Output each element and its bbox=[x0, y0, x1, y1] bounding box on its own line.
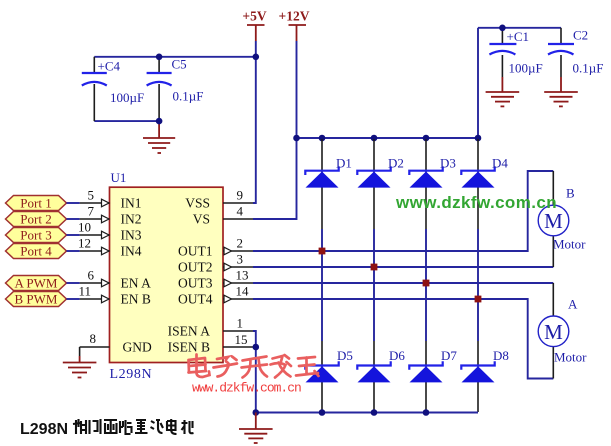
svg-text:9: 9 bbox=[237, 188, 244, 203]
svg-text:VS: VS bbox=[193, 212, 210, 227]
svg-text:C2: C2 bbox=[573, 28, 588, 43]
ground below C1 bbox=[486, 77, 520, 106]
svg-text:Port 2: Port 2 bbox=[20, 212, 51, 227]
port flag B PWM bbox=[6, 292, 80, 307]
node red junction OUT1/D1 bbox=[319, 248, 326, 255]
svg-text:D5: D5 bbox=[337, 348, 353, 363]
node red junction OUT2/D2 bbox=[371, 264, 378, 271]
svg-text:D6: D6 bbox=[389, 348, 405, 363]
svg-text:OUT2: OUT2 bbox=[178, 260, 213, 275]
svg-text:B PWM: B PWM bbox=[15, 292, 58, 307]
ground below bottom bus bbox=[239, 413, 273, 444]
svg-text:VSS: VSS bbox=[185, 196, 210, 211]
capacitor C5 bbox=[147, 57, 204, 122]
svg-text:10: 10 bbox=[78, 220, 91, 235]
svg-text:D8: D8 bbox=[493, 348, 509, 363]
svg-text:+C4: +C4 bbox=[98, 59, 121, 74]
svg-text:ISEN B: ISEN B bbox=[168, 340, 210, 355]
diode D7 bbox=[409, 348, 457, 382]
svg-text:C5: C5 bbox=[172, 57, 187, 72]
wire ISEN net bbox=[253, 331, 256, 413]
svg-text:15: 15 bbox=[235, 332, 248, 347]
node red junction OUT3/D3 bbox=[423, 280, 430, 287]
wire top-right rail C1/C2 bbox=[478, 27, 561, 29]
node C5 top junction bbox=[156, 54, 163, 61]
svg-text:Motor: Motor bbox=[554, 350, 587, 365]
wire +12V net vertical to VS bbox=[253, 41, 297, 219]
wire OUT2 net to motor B bottom bbox=[253, 236, 553, 268]
pin numbers left bbox=[78, 188, 96, 347]
wire OUT3 net to motor A top bbox=[253, 283, 553, 317]
svg-text:IN3: IN3 bbox=[121, 228, 142, 243]
wire diode column 4 bbox=[477, 139, 479, 412]
diode D2 bbox=[357, 156, 404, 188]
node bottom bus junctions bbox=[253, 409, 260, 416]
svg-text:+C1: +C1 bbox=[507, 29, 530, 44]
svg-text:12: 12 bbox=[78, 236, 91, 251]
wire top-left rail C4/C5 bbox=[94, 56, 256, 58]
node C4/C5 bottom junction bbox=[156, 118, 163, 125]
pin numbers right bbox=[235, 188, 250, 348]
svg-text:A: A bbox=[568, 297, 578, 312]
port flag Port2 bbox=[6, 212, 80, 227]
wire diode column 2 bbox=[373, 139, 375, 412]
svg-text:Port 4: Port 4 bbox=[20, 244, 52, 259]
port flag Port4 bbox=[6, 244, 80, 259]
svg-text:D7: D7 bbox=[441, 348, 457, 363]
IC U1 L298N body bbox=[110, 170, 224, 382]
node red junction OUT4/D4 bbox=[475, 296, 482, 303]
svg-text:U1: U1 bbox=[111, 170, 127, 185]
svg-text:D4: D4 bbox=[492, 156, 508, 171]
port flag A PWM bbox=[6, 276, 80, 291]
power +12V bbox=[279, 9, 310, 42]
wire OUT1 net to motor B top bbox=[253, 171, 553, 251]
svg-text:www.dzkfw.com.cn: www.dzkfw.com.cn bbox=[192, 381, 301, 396]
svg-text:0.1µF: 0.1µF bbox=[173, 89, 204, 104]
IC pin names bbox=[121, 196, 213, 355]
node ISEN junction bbox=[253, 344, 260, 351]
capacitor C2 bbox=[548, 28, 603, 78]
svg-text:Port 1: Port 1 bbox=[20, 196, 51, 211]
svg-text:100µF: 100µF bbox=[110, 90, 144, 105]
motor A bbox=[538, 297, 587, 365]
svg-text:GND: GND bbox=[123, 340, 152, 355]
svg-text:2: 2 bbox=[237, 236, 244, 251]
svg-text:D2: D2 bbox=[388, 156, 404, 171]
capacitor C4 bbox=[82, 57, 144, 121]
wire bottom bus bbox=[256, 412, 478, 414]
svg-text:IN4: IN4 bbox=[121, 244, 142, 259]
svg-text:OUT4: OUT4 bbox=[178, 292, 213, 307]
wire OUT4 net to motor A bottom bbox=[253, 299, 553, 379]
svg-text:4: 4 bbox=[237, 204, 244, 219]
svg-text:B: B bbox=[566, 186, 575, 201]
node C1 top junction bbox=[499, 25, 506, 32]
ground at GND pin 8 bbox=[63, 347, 97, 378]
svg-text:11: 11 bbox=[78, 284, 91, 299]
svg-text:100µF: 100µF bbox=[509, 61, 543, 76]
diode D3 bbox=[409, 156, 456, 188]
svg-text:IN2: IN2 bbox=[121, 212, 142, 227]
port flag Port1 bbox=[6, 196, 80, 211]
wire +5V net vertical to VSS bbox=[253, 41, 256, 203]
svg-text:A PWM: A PWM bbox=[15, 276, 58, 291]
title L298N控制两路直流电机 bbox=[20, 419, 194, 438]
svg-text:EN B: EN B bbox=[121, 292, 151, 307]
svg-text:5: 5 bbox=[88, 188, 95, 203]
diode D5 bbox=[305, 348, 353, 382]
pin input triangles bbox=[102, 199, 110, 303]
svg-text:IN1: IN1 bbox=[121, 196, 142, 211]
svg-text:L298N: L298N bbox=[110, 367, 153, 382]
ground below C5 bbox=[143, 121, 175, 153]
node +5V junction bbox=[253, 54, 260, 61]
svg-text:Port 3: Port 3 bbox=[20, 228, 51, 243]
svg-text:OUT3: OUT3 bbox=[178, 276, 213, 291]
svg-text:D1: D1 bbox=[336, 156, 352, 171]
svg-text:13: 13 bbox=[236, 268, 249, 283]
diode D1 bbox=[305, 156, 352, 188]
wire top bus +12V to diodes bbox=[297, 137, 479, 139]
pin stubs right bbox=[223, 203, 253, 347]
svg-text:1: 1 bbox=[237, 316, 244, 331]
svg-text:M: M bbox=[544, 320, 563, 344]
capacitor C1 bbox=[489, 28, 542, 77]
wire bottom rail C4/C5 bbox=[94, 120, 159, 122]
svg-text:6: 6 bbox=[88, 268, 95, 283]
svg-text:7: 7 bbox=[88, 204, 95, 219]
svg-text:www.dzkfw.com.cn: www.dzkfw.com.cn bbox=[395, 193, 557, 212]
svg-text:Motor: Motor bbox=[553, 237, 586, 252]
power +5V bbox=[242, 9, 266, 42]
svg-text:ISEN A: ISEN A bbox=[168, 324, 211, 339]
svg-text:14: 14 bbox=[236, 284, 250, 299]
svg-text:EN A: EN A bbox=[121, 276, 152, 291]
svg-text:+12V: +12V bbox=[279, 9, 310, 24]
svg-text:L298N: L298N bbox=[20, 421, 68, 438]
ground below C2 bbox=[544, 77, 578, 106]
svg-text:0.1µF: 0.1µF bbox=[573, 61, 604, 76]
svg-text:+5V: +5V bbox=[242, 9, 266, 24]
svg-text:3: 3 bbox=[237, 252, 244, 267]
svg-text:8: 8 bbox=[90, 331, 97, 346]
pin stubs left bbox=[80, 203, 110, 347]
node top bus junctions bbox=[293, 135, 300, 142]
wire riser to top bus bbox=[477, 28, 479, 138]
svg-text:OUT1: OUT1 bbox=[178, 244, 213, 259]
diode D6 bbox=[357, 348, 405, 382]
svg-text:M: M bbox=[544, 209, 563, 233]
motor B bbox=[538, 186, 586, 252]
svg-text:D3: D3 bbox=[440, 156, 456, 171]
wire diode column 1 bbox=[321, 139, 323, 412]
pin output triangles bbox=[224, 247, 232, 303]
diode D8 bbox=[461, 348, 509, 382]
watermark red calligraphy 电子开发王 bbox=[189, 355, 319, 378]
diode D4 bbox=[461, 156, 508, 188]
wire diode column 3 bbox=[425, 139, 427, 412]
port flag Port3 bbox=[6, 228, 80, 243]
